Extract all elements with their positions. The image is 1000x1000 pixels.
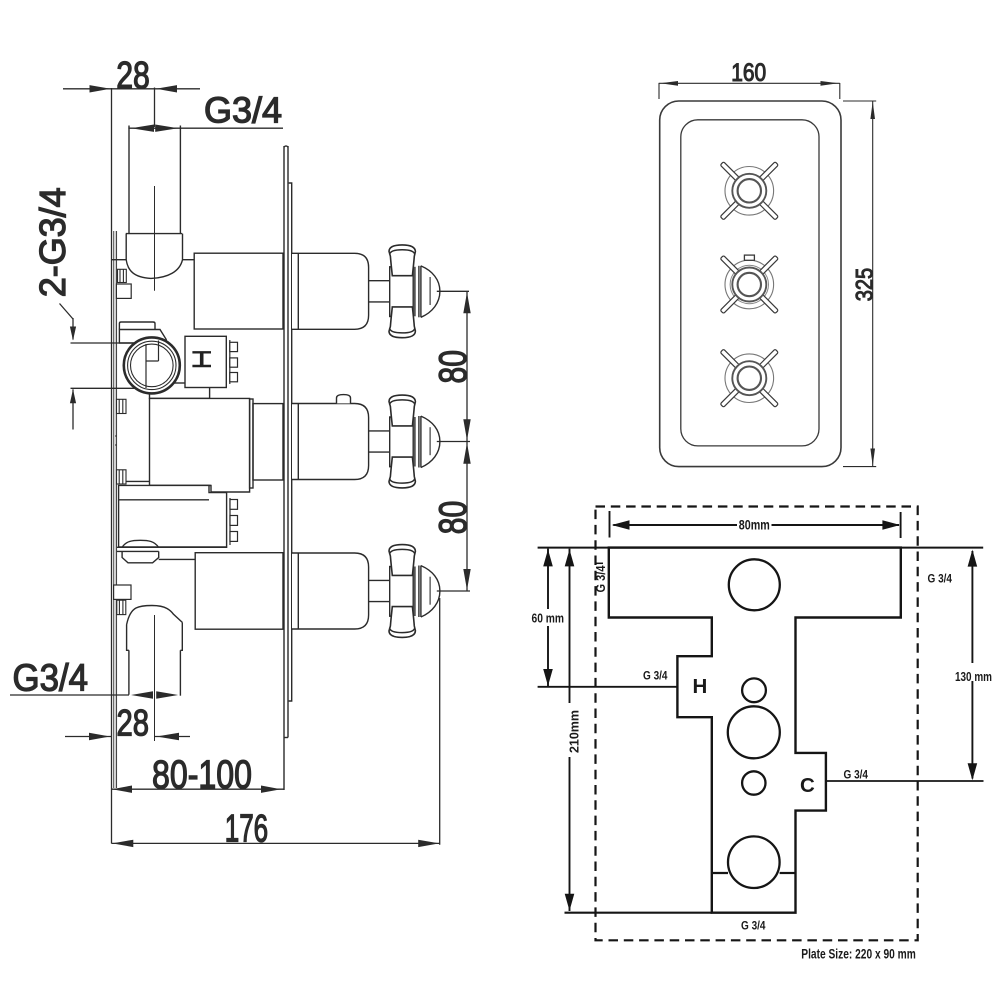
2-G3/4 port lines	[71, 342, 136, 344]
svg-text:130 mm: 130 mm	[955, 669, 992, 684]
elbow flange ticks	[112, 259, 126, 261]
faceplate outer	[660, 101, 841, 467]
dim 176 line	[112, 842, 440, 844]
lower band assembly	[119, 485, 227, 547]
dim 130mm	[955, 550, 992, 781]
override tab middle handle	[744, 255, 754, 260]
cartridge body middle	[292, 404, 369, 480]
left outlet dome	[122, 540, 158, 547]
svg-text:176: 176	[225, 808, 269, 851]
faceplate side: back line	[283, 146, 285, 790]
faceplate inner	[681, 120, 819, 446]
handle hub bottom	[390, 567, 414, 617]
dim 176 arrows	[112, 840, 439, 847]
dim 325	[872, 101, 874, 466]
port keyway	[146, 341, 159, 389]
dashed boundary box	[596, 507, 918, 941]
2-G3/4 leader	[60, 304, 74, 320]
dim 28 bottom lines	[65, 736, 112, 738]
dim 80-100 arrows	[112, 786, 281, 793]
H symbol (rotated H)	[192, 352, 211, 366]
middle valve block	[150, 398, 250, 492]
dim 80 chain extensions	[437, 290, 469, 292]
leader H port G3/4	[538, 686, 678, 688]
dome backplates bottom	[414, 567, 416, 617]
svg-text:C: C	[800, 774, 815, 797]
dim 28 top extension	[154, 88, 156, 128]
handle bottom arm middle	[389, 457, 415, 488]
bolt 1	[118, 269, 127, 282]
cartridge body top	[292, 253, 369, 329]
faceplate trim line	[289, 183, 292, 701]
override knob on middle cartridge	[337, 395, 351, 404]
bolt 2	[117, 399, 127, 413]
upper connector collar B	[119, 330, 166, 344]
mounting plate	[113, 231, 115, 788]
svg-text:160: 160	[731, 59, 766, 87]
dim 176 extension	[439, 598, 441, 845]
bottom seam lines	[712, 872, 728, 874]
dim 80 chain line	[466, 291, 468, 591]
bottom valve block	[195, 553, 283, 630]
wall line	[111, 88, 113, 844]
bottom reference line	[565, 912, 712, 914]
ribbed coupler lower	[229, 498, 231, 545]
bolt3 link line	[123, 480, 150, 482]
dim 60mm	[532, 549, 565, 687]
ribbed coupler upper	[229, 340, 231, 384]
dim 80 chain arrows	[463, 292, 470, 590]
plate dots	[115, 435, 117, 446]
dim G3/4 top arrows	[131, 125, 178, 132]
nut-to-block line	[159, 558, 196, 560]
faceplate side: front line	[287, 146, 289, 738]
dim G3/4 bottom leader	[10, 694, 129, 696]
bolt 3	[117, 470, 127, 484]
bottom pipe	[128, 650, 130, 694]
step block 2	[114, 585, 131, 599]
cartridge unit top	[292, 245, 440, 338]
top pipe centerline	[154, 186, 156, 291]
port circle bottom	[728, 836, 780, 888]
small circle upper	[742, 678, 766, 702]
small circle lower	[742, 771, 765, 794]
handle top arm top	[389, 245, 415, 276]
svg-text:G 3/4: G 3/4	[643, 669, 668, 683]
svg-text:60 mm: 60 mm	[532, 611, 565, 626]
svg-text:G3/4: G3/4	[204, 89, 282, 130]
handle bottom front	[720, 349, 778, 407]
dome backplates middle	[414, 417, 416, 467]
cartridge unit middle	[292, 395, 440, 488]
dim 28 bottom arrows	[89, 733, 179, 740]
cartridge unit bottom	[292, 545, 440, 638]
svg-text:G3/4: G3/4	[13, 658, 89, 700]
handle top front	[720, 162, 778, 220]
svg-text:Plate Size: 220 x 90 mm: Plate Size: 220 x 90 mm	[801, 947, 916, 962]
port circle top	[729, 559, 780, 610]
wall reference line top	[538, 547, 984, 549]
svg-text:28: 28	[116, 55, 150, 97]
bottom centerline	[154, 615, 156, 741]
stem top	[369, 281, 390, 302]
cartridge body bottom	[292, 553, 369, 629]
dome top	[421, 266, 440, 317]
dim 210mm	[565, 549, 582, 911]
middle block strip	[250, 399, 253, 488]
dim 160	[659, 82, 840, 84]
dome middle	[421, 416, 440, 467]
dim 80mm	[610, 511, 901, 538]
manifold body outline	[609, 548, 901, 913]
faceplate top cap	[284, 146, 288, 147]
dim G3/4 bottom arrows	[131, 691, 178, 698]
handle bottom arm top	[389, 307, 415, 338]
top supply pipe	[128, 126, 130, 234]
middle band	[150, 383, 210, 398]
svg-text:80: 80	[432, 350, 475, 384]
svg-text:G 3/4: G 3/4	[594, 565, 608, 592]
left outlet nut	[117, 551, 159, 562]
stem middle	[369, 431, 390, 452]
dome bottom	[421, 566, 440, 617]
svg-text:28: 28	[117, 702, 150, 744]
faceplate bottom cap	[284, 737, 288, 739]
dim 80-100 line	[112, 788, 284, 790]
svg-text:80mm: 80mm	[739, 518, 770, 533]
dim 28 top line	[63, 88, 200, 90]
svg-text:80: 80	[432, 501, 475, 535]
svg-text:G 3/4: G 3/4	[928, 572, 953, 586]
top valve block	[194, 253, 283, 329]
dome backplates top	[414, 267, 416, 317]
upper connector piece A	[119, 322, 155, 330]
svg-text:325: 325	[851, 268, 878, 301]
middle rear housing	[253, 404, 283, 480]
port circle	[124, 337, 180, 393]
svg-text:G 3/4: G 3/4	[844, 767, 869, 781]
top elbow fitting	[126, 234, 183, 279]
handle top arm middle	[389, 395, 415, 426]
svg-text:80-100: 80-100	[152, 753, 252, 797]
handle hub top	[390, 267, 414, 317]
dim 28 top arrows	[90, 85, 178, 92]
bottom bell elbow	[127, 606, 183, 651]
stem bottom	[369, 580, 390, 601]
handle bottom arm bottom	[389, 607, 415, 638]
step block 1	[116, 284, 131, 298]
handle hub middle	[390, 417, 414, 467]
svg-text:210mm: 210mm	[568, 710, 582, 753]
svg-text:G 3/4: G 3/4	[741, 919, 766, 933]
svg-text:2-G3/4: 2-G3/4	[32, 187, 73, 297]
hot inlet port circle assembly	[185, 336, 226, 387]
dim G3/4 top line	[128, 127, 283, 129]
leader C port G3/4	[826, 780, 984, 782]
port circle middle	[728, 706, 780, 758]
handle top arm bottom	[389, 545, 415, 576]
bolt 4	[117, 600, 126, 614]
handle middle front	[720, 255, 778, 313]
svg-text:H: H	[693, 675, 708, 698]
